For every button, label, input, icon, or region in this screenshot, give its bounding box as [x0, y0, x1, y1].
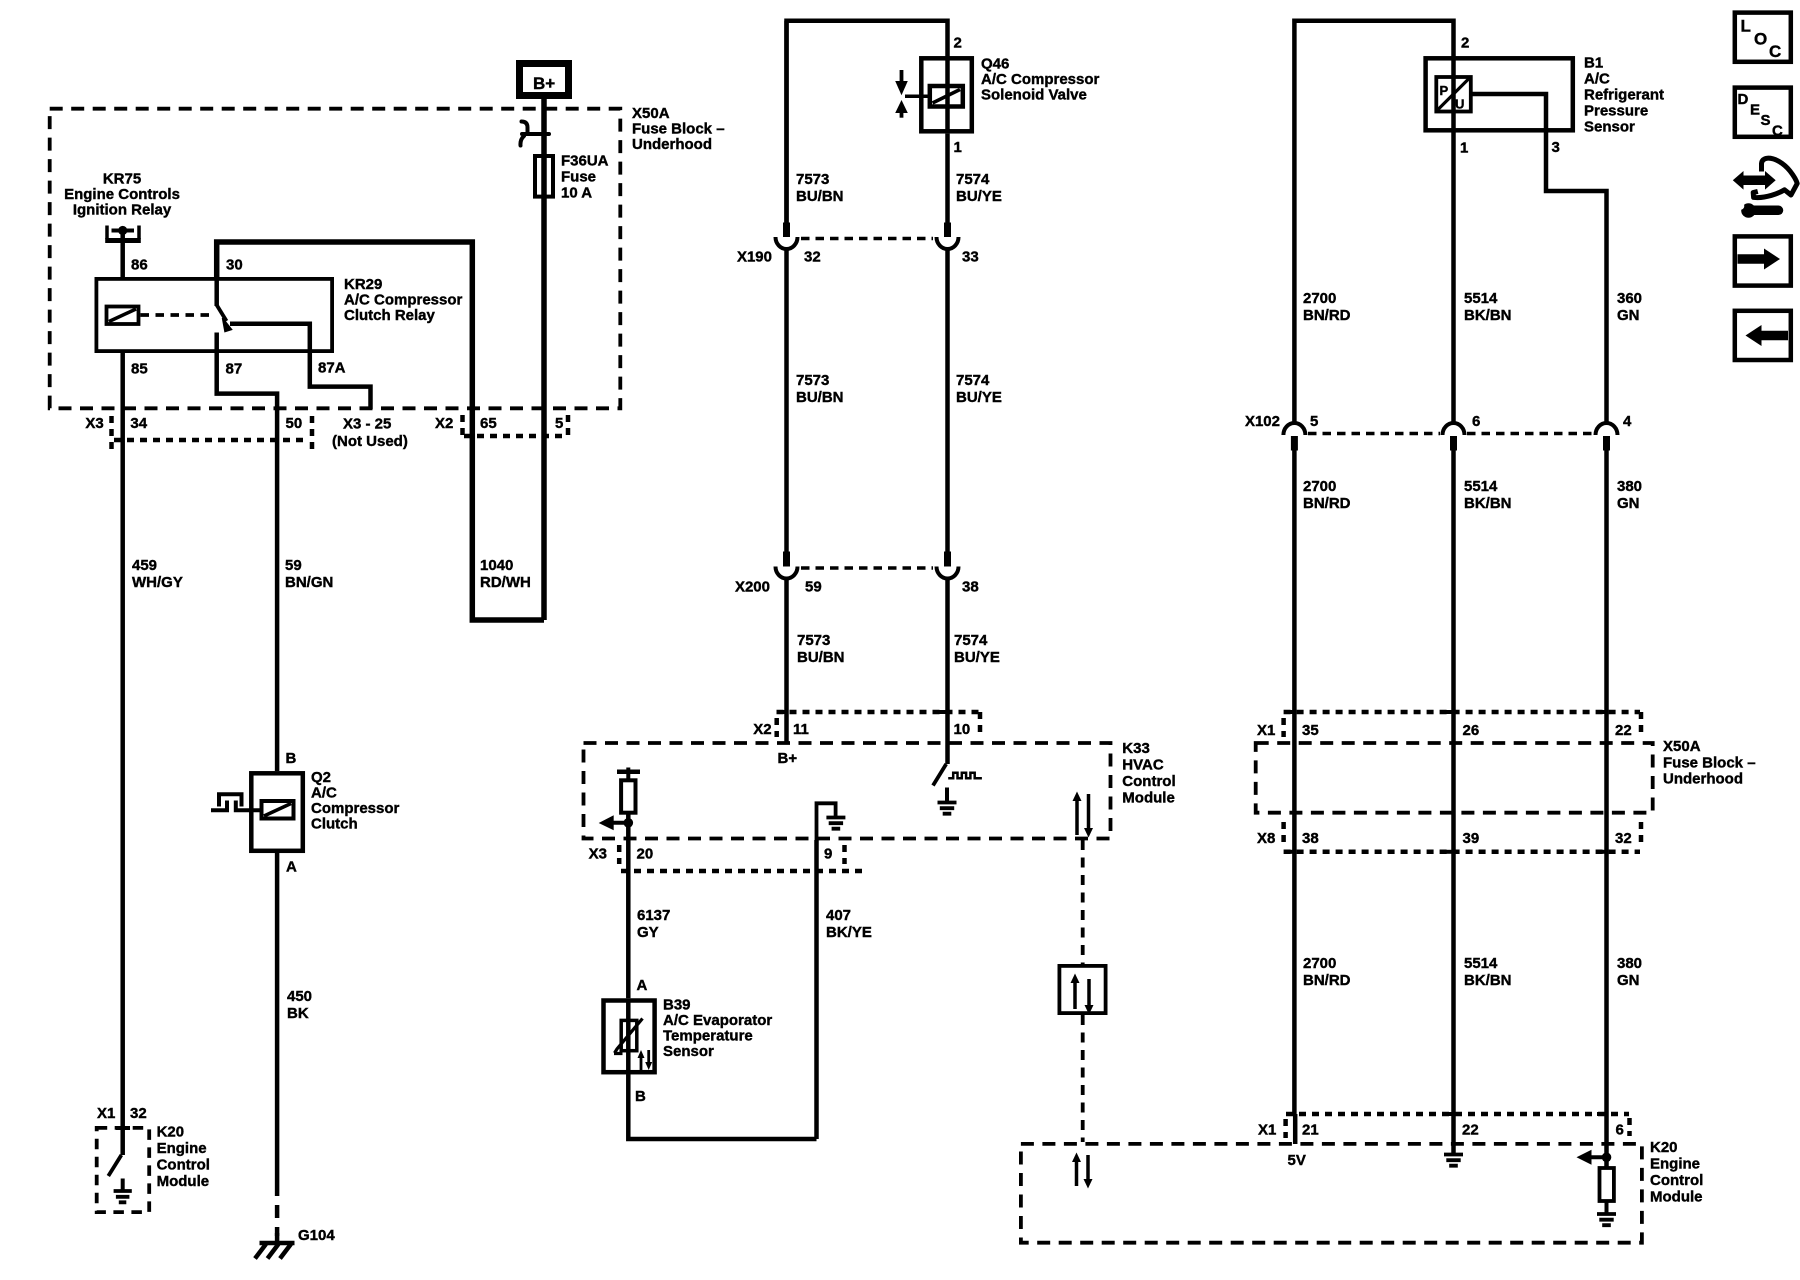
- svg-text:Module: Module: [1122, 790, 1175, 807]
- K20 internal ground (pin 6): [1597, 1201, 1616, 1225]
- nav icon diagnostic wrench: [1733, 158, 1797, 218]
- svg-text:X1: X1: [1257, 722, 1275, 739]
- svg-text:WH/GY: WH/GY: [132, 574, 183, 591]
- svg-text:59: 59: [285, 557, 302, 574]
- K33 serial data arrows: [1073, 792, 1094, 838]
- svg-text:C: C: [1772, 123, 1783, 140]
- svg-text:32: 32: [130, 1105, 147, 1122]
- relay KR29 contact 87A branch: [230, 324, 310, 353]
- svg-text:4: 4: [1623, 413, 1632, 430]
- wire 407 BK/YE K33 pin9 down: [814, 840, 819, 1139]
- svg-text:X50A: X50A: [632, 105, 670, 122]
- svg-text:10: 10: [954, 721, 971, 738]
- svg-text:GY: GY: [637, 924, 659, 941]
- svg-text:X1: X1: [97, 1105, 115, 1122]
- K20 internal resistor (pin 6): [1600, 1168, 1614, 1201]
- wire 85 to pin 34 down to K20: [120, 353, 125, 1128]
- svg-text:BU/BN: BU/BN: [797, 649, 845, 666]
- svg-text:Temperature: Temperature: [663, 1028, 753, 1045]
- svg-text:7574: 7574: [956, 171, 990, 188]
- ECM K20 (left) internal switch: [108, 1128, 122, 1176]
- svg-text:K20: K20: [1650, 1139, 1678, 1156]
- B1 P/U transducer symbol: [1436, 77, 1471, 112]
- wire label 1040 RD/WH: [480, 557, 531, 591]
- svg-text:Module: Module: [157, 1173, 210, 1190]
- wire 2700 X102 to fuse block: [1292, 451, 1297, 1115]
- SECTION-RIGHT: [1021, 21, 1756, 1243]
- label K20 engine control module (left): [157, 1124, 210, 1191]
- SECTION-MIDDLE: [584, 21, 1176, 1142]
- wire label 7574 BU/YE (top): [956, 171, 1002, 205]
- wire label 7573 BU/BN (mid): [796, 372, 844, 406]
- svg-text:459: 459: [132, 557, 157, 574]
- pin tick 22b: [1444, 1112, 1454, 1116]
- svg-text:B: B: [635, 1088, 646, 1105]
- pin tick 10: [938, 710, 948, 714]
- svg-text:1: 1: [954, 139, 962, 156]
- svg-text:7573: 7573: [797, 632, 830, 649]
- pin tick 11: [777, 710, 787, 714]
- svg-text:RD/WH: RD/WH: [480, 574, 531, 591]
- B39 thermistor symbol: [614, 1019, 643, 1054]
- connector X200 left terminal: [776, 552, 798, 579]
- connector row dotted separators (left block): [112, 415, 569, 450]
- svg-text:85: 85: [131, 361, 148, 378]
- wire label 459 WH/GY: [132, 557, 183, 591]
- pin tick 38: [1285, 850, 1294, 854]
- svg-text:Control: Control: [1122, 773, 1175, 790]
- nav button back arrow: [1735, 311, 1791, 360]
- evaporator temp sensor B39 box: [604, 1001, 655, 1073]
- label X50A fuse block (right): [1663, 738, 1756, 788]
- svg-text:BU/YE: BU/YE: [956, 389, 1002, 406]
- connector X200 right terminal: [937, 552, 959, 579]
- svg-text:BN/RD: BN/RD: [1303, 972, 1351, 989]
- label X50A fuse block (left): [632, 105, 725, 153]
- svg-text:2: 2: [954, 35, 962, 52]
- wire pin 22 stub to ground: [1451, 1114, 1456, 1153]
- svg-text:65: 65: [480, 415, 497, 432]
- wire B1 supply loop top: [1294, 21, 1453, 423]
- label B1 pressure sensor: [1584, 55, 1664, 136]
- svg-text:6: 6: [1616, 1122, 1624, 1139]
- Q46 coil: [930, 86, 963, 107]
- svg-text:HVAC: HVAC: [1122, 757, 1164, 774]
- svg-text:Clutch: Clutch: [311, 816, 358, 833]
- svg-text:87A: 87A: [318, 360, 346, 377]
- svg-text:X50A: X50A: [1663, 738, 1701, 755]
- wire relay pin30 feed: up, across, down to pin65, under to pin5: [217, 242, 544, 620]
- K33 PWM signal symbol: [948, 773, 982, 779]
- svg-text:BK/BN: BK/BN: [1464, 307, 1512, 324]
- pressure sensor B1 box: [1426, 58, 1573, 130]
- svg-text:6: 6: [1472, 413, 1480, 430]
- svg-text:Sensor: Sensor: [1584, 119, 1635, 136]
- svg-text:A/C: A/C: [1584, 71, 1610, 88]
- svg-text:360: 360: [1617, 290, 1642, 307]
- B1 wire through pin1: [1451, 56, 1456, 133]
- svg-text:BU/BN: BU/BN: [796, 389, 844, 406]
- svg-text:22: 22: [1615, 722, 1632, 739]
- svg-text:(Not Used): (Not Used): [332, 433, 408, 450]
- svg-text:Solenoid Valve: Solenoid Valve: [981, 87, 1087, 104]
- svg-text:BK: BK: [287, 1005, 309, 1022]
- Q2 coil: [262, 801, 294, 819]
- svg-text:BU/YE: BU/YE: [956, 188, 1002, 205]
- wire B+ feed down through fuse: [541, 99, 547, 620]
- svg-text:K33: K33: [1122, 740, 1150, 757]
- wire 380 X102 to fuse block: [1604, 451, 1609, 1115]
- svg-text:X200: X200: [735, 579, 770, 596]
- fuse block X50A dashed box (right): [1256, 743, 1653, 813]
- svg-text:Control: Control: [157, 1157, 210, 1174]
- svg-text:X1: X1: [1258, 1122, 1276, 1139]
- svg-text:Compressor: Compressor: [311, 800, 400, 817]
- wire label 7574 BU/YE (mid): [956, 372, 1002, 406]
- wire label 7573 BU/BN (lower): [797, 632, 845, 666]
- svg-text:Control: Control: [1650, 1172, 1703, 1189]
- svg-text:Fuse Block –: Fuse Block –: [1663, 754, 1756, 771]
- pin tick 39: [1444, 850, 1454, 854]
- svg-text:X102: X102: [1245, 413, 1280, 430]
- wire 5514 X102 to fuse block: [1451, 451, 1456, 1115]
- svg-text:Q2: Q2: [311, 769, 331, 786]
- wire 7573 X200 to K33 pin 11: [784, 579, 789, 744]
- connector X102 terminal 5: [1283, 423, 1305, 451]
- svg-text:P: P: [1440, 83, 1449, 98]
- HVAC module K33 dashed box: [584, 743, 1111, 839]
- pin tick 21: [1286, 1112, 1295, 1116]
- svg-text:S: S: [1761, 112, 1771, 129]
- connector X102 terminal 4: [1596, 423, 1618, 451]
- svg-text:Engine Controls: Engine Controls: [64, 186, 180, 203]
- svg-text:BK/YE: BK/YE: [826, 924, 872, 941]
- svg-text:GN: GN: [1617, 972, 1640, 989]
- svg-text:Engine: Engine: [1650, 1156, 1700, 1173]
- serial data link arrows: [1071, 974, 1094, 1015]
- svg-text:Refrigerant: Refrigerant: [1584, 87, 1664, 104]
- svg-text:5V: 5V: [1288, 1152, 1306, 1169]
- svg-text:87: 87: [226, 361, 243, 378]
- svg-text:1040: 1040: [480, 557, 513, 574]
- wire solenoid supply loop top: [787, 21, 948, 223]
- wire label 380 GN (mid): [1617, 478, 1642, 512]
- svg-text:32: 32: [804, 249, 821, 266]
- label F36UA value: [561, 153, 609, 202]
- K33 internal 5V tap and resistor (pin 20): [599, 768, 640, 841]
- svg-text:7573: 7573: [796, 171, 829, 188]
- wire label 450 BK: [287, 988, 312, 1022]
- svg-text:U: U: [1455, 97, 1464, 112]
- K20 internal ground (pin 22): [1444, 1155, 1463, 1166]
- ECM K20 (left) pin labels X1 32: [97, 1105, 147, 1122]
- label KR75 relay: [64, 171, 180, 219]
- connector X190 left terminal: [776, 223, 798, 250]
- connector X102 dashed links: [1308, 432, 1440, 436]
- svg-text:A: A: [637, 977, 648, 994]
- svg-text:B+: B+: [778, 750, 798, 767]
- svg-text:B: B: [286, 750, 297, 767]
- relay KR75 coil symbol: [105, 226, 141, 241]
- svg-text:BK/BN: BK/BN: [1464, 972, 1512, 989]
- svg-text:Engine: Engine: [157, 1140, 207, 1157]
- svg-text:A/C Compressor: A/C Compressor: [344, 292, 463, 309]
- svg-text:32: 32: [1615, 830, 1632, 847]
- ECM K20 (left) pin tick: [116, 1126, 130, 1130]
- pin tick 35: [1285, 710, 1294, 714]
- wire 450 BK from Q2 to G104: [275, 853, 280, 1183]
- connector X190 right terminal: [937, 223, 959, 250]
- K33 internal ground (pin 9): [817, 803, 846, 840]
- svg-text:86: 86: [131, 257, 148, 274]
- svg-text:BK/BN: BK/BN: [1464, 495, 1512, 512]
- wire label 5514 BK/BN (top): [1464, 290, 1512, 324]
- wire 7573 X190 to X200: [784, 249, 789, 552]
- wire label 7574 BU/YE (lower): [954, 632, 1000, 666]
- wire 360 GN B1-3 to X102: [1546, 133, 1607, 424]
- svg-text:Underhood: Underhood: [632, 136, 712, 153]
- label B39 evaporator sensor: [663, 997, 772, 1061]
- connector X200 dashed link: [801, 566, 933, 570]
- K20 serial data arrows: [1072, 1153, 1093, 1189]
- wire 7574 X200 to K33 pin 10: [945, 579, 950, 765]
- wire label 360 GN: [1617, 290, 1642, 324]
- svg-text:35: 35: [1302, 722, 1319, 739]
- Q2 clutch symbol: [211, 794, 262, 810]
- K20 signal arrow (pin 6): [1577, 1150, 1607, 1165]
- serial data dashed wire from K33: [1081, 840, 1085, 964]
- svg-text:Sensor: Sensor: [663, 1043, 714, 1060]
- svg-text:3: 3: [1552, 139, 1560, 156]
- wire label 7573 BU/BN (top): [796, 171, 844, 205]
- svg-text:10 A: 10 A: [561, 185, 592, 202]
- SECTION-LEFT: [50, 64, 725, 1259]
- connector row X2 (K33) dotted: [777, 712, 982, 737]
- svg-text:2700: 2700: [1303, 290, 1336, 307]
- solenoid valve Q46 box: [921, 58, 972, 131]
- svg-text:O: O: [1754, 30, 1767, 49]
- svg-text:11: 11: [793, 721, 809, 738]
- connector row X8 dotted: [1284, 822, 1641, 852]
- svg-text:Underhood: Underhood: [1663, 771, 1743, 788]
- fuse block X50A dashed box (left): [50, 109, 621, 409]
- svg-text:7574: 7574: [956, 372, 990, 389]
- wire label 407 BK/YE: [826, 907, 872, 941]
- wire label 2700 BN/RD (top): [1303, 290, 1351, 324]
- wire 87A to X3-25 not used: [310, 353, 371, 409]
- serial data dashed wire to K20: [1081, 1015, 1085, 1142]
- svg-text:2: 2: [1461, 35, 1469, 52]
- svg-text:30: 30: [226, 257, 243, 274]
- svg-text:B1: B1: [1584, 55, 1603, 72]
- svg-text:BN/RD: BN/RD: [1303, 495, 1351, 512]
- svg-text:KR75: KR75: [103, 171, 141, 188]
- svg-text:X3: X3: [85, 415, 103, 432]
- wire 87 to pin 50 down to Q2: [217, 353, 277, 771]
- connector X102 terminal 6: [1443, 423, 1465, 451]
- svg-text:34: 34: [130, 415, 147, 432]
- svg-text:1: 1: [1460, 140, 1468, 157]
- svg-text:7573: 7573: [796, 372, 829, 389]
- nav button DESC: [1735, 88, 1791, 140]
- label KR29 relay: [344, 276, 463, 324]
- svg-text:BN/GN: BN/GN: [285, 574, 333, 591]
- svg-text:GN: GN: [1617, 307, 1640, 324]
- nav button forward arrow: [1735, 236, 1791, 285]
- svg-text:A/C Evaporator: A/C Evaporator: [663, 1012, 772, 1029]
- K33 internal ground (pin 10): [938, 788, 957, 814]
- pin tick 32: [1597, 850, 1607, 854]
- wire label 5514 BK/BN (bottom): [1464, 955, 1512, 989]
- B39 temp arrows: [638, 1050, 653, 1070]
- wire pin 6 into K20: [1604, 1114, 1609, 1168]
- svg-text:Ignition Relay: Ignition Relay: [73, 202, 172, 219]
- wire 6137 GY K33 to B39: [626, 840, 631, 998]
- svg-text:X3: X3: [589, 846, 607, 863]
- svg-text:G104: G104: [298, 1227, 335, 1244]
- svg-text:L: L: [1741, 17, 1751, 36]
- connector row X1 (fuse block right) dotted: [1284, 712, 1641, 737]
- SECTION-ICONS: [1733, 13, 1797, 360]
- svg-text:A: A: [286, 859, 297, 876]
- label Q46 solenoid valve: [981, 56, 1100, 104]
- svg-text:B39: B39: [663, 997, 691, 1014]
- svg-text:2700: 2700: [1303, 478, 1336, 495]
- svg-text:26: 26: [1463, 722, 1480, 739]
- svg-text:KR29: KR29: [344, 276, 382, 293]
- relay KR29 switch: [217, 277, 232, 353]
- wire Q46-1 down to X190: [945, 134, 950, 223]
- Q46 wire through: [945, 56, 950, 134]
- svg-text:X8: X8: [1257, 830, 1275, 847]
- wire label 59 BN/GN: [285, 557, 333, 591]
- svg-text:2700: 2700: [1303, 955, 1336, 972]
- svg-text:9: 9: [824, 846, 832, 863]
- svg-text:Clutch Relay: Clutch Relay: [344, 307, 436, 324]
- svg-text:38: 38: [962, 579, 979, 596]
- svg-text:380: 380: [1617, 955, 1642, 972]
- svg-text:6137: 6137: [637, 907, 670, 924]
- ECM K20 (right) dashed box: [1021, 1144, 1642, 1243]
- relay KR29 coil-to-switch dashed link: [141, 313, 212, 317]
- svg-text:5: 5: [555, 415, 563, 432]
- K20 junction dot: [1602, 1153, 1612, 1163]
- svg-text:A/C Compressor: A/C Compressor: [981, 71, 1100, 88]
- svg-text:E: E: [1750, 102, 1760, 119]
- svg-text:GN: GN: [1617, 495, 1640, 512]
- svg-text:50: 50: [286, 415, 303, 432]
- svg-text:X2: X2: [435, 415, 453, 432]
- ground G104 chassis symbol: [255, 1233, 295, 1259]
- svg-text:38: 38: [1302, 830, 1319, 847]
- connector X190 dashed link: [801, 237, 933, 241]
- svg-text:F36UA: F36UA: [561, 153, 609, 170]
- ECM K20 (left) internal ground: [114, 1179, 132, 1203]
- fuse F36UA: [535, 156, 553, 197]
- svg-text:BU/YE: BU/YE: [954, 649, 1000, 666]
- B1 pin3 internal lead: [1471, 94, 1546, 133]
- label K33 HVAC control module: [1122, 740, 1175, 807]
- svg-text:Fuse Block –: Fuse Block –: [632, 121, 725, 138]
- svg-text:BN/RD: BN/RD: [1303, 307, 1351, 324]
- svg-text:X2: X2: [753, 721, 771, 738]
- svg-text:Q46: Q46: [981, 56, 1009, 73]
- svg-text:C: C: [1769, 42, 1781, 61]
- svg-text:21: 21: [1302, 1122, 1319, 1139]
- relay KR29 box: [96, 279, 332, 351]
- svg-text:A/C: A/C: [311, 785, 337, 802]
- pin tick 6: [1597, 1112, 1607, 1116]
- svg-text:D: D: [1738, 91, 1749, 108]
- label K20 engine control module (right): [1650, 1139, 1703, 1206]
- wire label 5514 BK/BN (mid): [1464, 478, 1512, 512]
- pin tick 22: [1597, 710, 1607, 714]
- svg-text:5: 5: [1310, 413, 1318, 430]
- ECM K20 (left) dashed box: [97, 1128, 150, 1212]
- battery B+ terminal: [520, 64, 569, 96]
- svg-text:B+: B+: [533, 74, 555, 93]
- svg-text:380: 380: [1617, 478, 1642, 495]
- svg-text:Fuse: Fuse: [561, 169, 596, 186]
- svg-text:59: 59: [805, 579, 822, 596]
- svg-text:X3 - 25: X3 - 25: [343, 416, 391, 433]
- wire label 6137 GY: [637, 907, 670, 941]
- wire B39 return loop to pin 9: [628, 1074, 816, 1139]
- wire pin 21 stub: [1293, 1114, 1298, 1144]
- wire Q46-2 down to X190: [784, 21, 789, 223]
- svg-text:450: 450: [287, 988, 312, 1005]
- wire 7574 X190 to X200: [945, 249, 950, 552]
- connector row X3 (K33 bottom) dotted: [619, 845, 862, 871]
- svg-text:33: 33: [962, 249, 979, 266]
- wire label 2700 BN/RD (bottom): [1303, 955, 1351, 989]
- svg-text:5514: 5514: [1464, 955, 1498, 972]
- B39 wire through: [626, 998, 631, 1074]
- wire KR75 to relay pin 86: [120, 231, 125, 277]
- compressor clutch Q2 box: [251, 773, 302, 851]
- svg-text:39: 39: [1463, 830, 1480, 847]
- svg-text:Pressure: Pressure: [1584, 103, 1648, 120]
- connector row X1 (K20 right) dotted: [1286, 1114, 1630, 1138]
- svg-text:BU/BN: BU/BN: [796, 188, 844, 205]
- wire label 2700 BN/RD (mid): [1303, 478, 1351, 512]
- wire label 380 GN (bottom): [1617, 955, 1642, 989]
- svg-text:20: 20: [637, 846, 654, 863]
- serial data link box: [1059, 966, 1105, 1013]
- pin tick 26: [1444, 710, 1454, 714]
- svg-text:5514: 5514: [1464, 290, 1498, 307]
- svg-text:X190: X190: [737, 249, 772, 266]
- svg-text:K20: K20: [157, 1124, 185, 1141]
- svg-text:22: 22: [1462, 1122, 1479, 1139]
- fuse holder clip: [520, 122, 549, 146]
- svg-text:Module: Module: [1650, 1189, 1703, 1206]
- nav button LOC: [1735, 13, 1791, 62]
- connector row X3/X2 labels under fuse block: [85, 415, 563, 450]
- Q46 valve arrows: [895, 70, 930, 118]
- svg-text:5514: 5514: [1464, 478, 1498, 495]
- relay KR29 coil: [107, 307, 139, 325]
- svg-text:7574: 7574: [954, 632, 988, 649]
- label Q2 compressor clutch: [311, 769, 400, 833]
- K33 internal switch (pin 10): [933, 764, 946, 786]
- svg-text:407: 407: [826, 907, 851, 924]
- wire 5514 B1-1 to X102: [1451, 133, 1456, 424]
